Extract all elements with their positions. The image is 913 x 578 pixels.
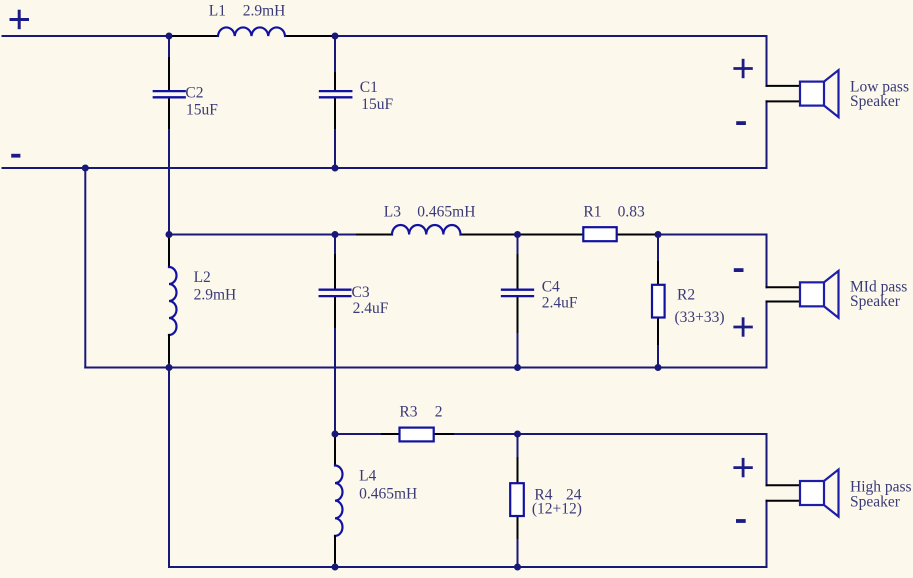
high pass speaker stubs — [767, 485, 801, 501]
node + high pass speaker positive — [735, 459, 752, 476]
junction high pass rail at R4 — [514, 431, 521, 438]
svg-text:R3: R3 — [399, 403, 417, 420]
svg-text:15uF: 15uF — [361, 96, 393, 113]
svg-text:R2: R2 — [677, 286, 695, 303]
mid pass speaker stubs — [767, 287, 801, 301]
junction top rail at C2 — [166, 33, 173, 40]
node - low pass speaker negative — [736, 121, 746, 125]
node - (input negative terminal) — [11, 154, 20, 158]
high pass speaker symbol — [800, 470, 839, 517]
wire high pass rail — [335, 433, 767, 435]
inductor L1 — [218, 27, 285, 36]
low pass speaker symbol — [800, 70, 839, 117]
inductor L2 — [169, 236, 177, 567]
junction mid rail at C4 — [514, 231, 521, 238]
svg-text:L3: L3 — [384, 204, 401, 221]
node + (input positive terminal) — [11, 11, 28, 28]
capacitor C1 — [320, 36, 351, 168]
svg-text:L2: L2 — [194, 269, 211, 286]
svg-text:C3: C3 — [352, 284, 370, 301]
wire negative rail — [3, 167, 767, 169]
capacitor C4 — [502, 235, 533, 368]
svg-text:2.9mH: 2.9mH — [194, 286, 237, 303]
junction bottom rail at R4 — [514, 564, 521, 571]
resistor R2 — [652, 235, 665, 368]
wire mid top rail — [169, 234, 767, 236]
svg-text:Speaker: Speaker — [850, 93, 901, 110]
svg-text:L4: L4 — [359, 468, 376, 485]
junction negative rail at C1 — [332, 165, 339, 172]
junction negative rail branch — [82, 165, 89, 172]
junction mid rail at L2 — [166, 231, 173, 238]
resistor R1 — [583, 227, 616, 241]
svg-text:C4: C4 — [542, 279, 560, 296]
svg-text:2.4uF: 2.4uF — [353, 300, 389, 317]
wire left vertical feed — [168, 168, 170, 236]
svg-text:Speaker: Speaker — [850, 293, 901, 310]
resistor R3 — [400, 428, 434, 442]
node + mid pass speaker positive — [735, 319, 752, 336]
svg-text:(12+12): (12+12) — [532, 500, 582, 517]
wire mid loop right edge — [766, 235, 768, 368]
wire top positive rail — [3, 35, 767, 37]
junction mid bottom rail at R2 — [655, 364, 662, 371]
node - mid pass speaker negative — [734, 268, 744, 272]
wire mid bottom rail — [85, 367, 766, 369]
svg-text:C1: C1 — [360, 79, 378, 96]
junction mid rail at R2 — [655, 231, 662, 238]
wire low-pass loop right edge — [766, 36, 768, 168]
svg-text:L1: L1 — [209, 3, 226, 20]
capacitor C2 — [154, 36, 185, 168]
junction mid bottom rail at C4 — [514, 364, 521, 371]
node - high pass speaker negative — [736, 519, 746, 523]
svg-text:(33+33): (33+33) — [675, 309, 725, 326]
junction high pass rail at L4 — [332, 431, 339, 438]
capacitor C3 — [320, 235, 351, 435]
svg-text:15uF: 15uF — [186, 102, 218, 119]
svg-text:Speaker: Speaker — [850, 493, 901, 510]
svg-text:2: 2 — [435, 403, 443, 420]
svg-text:0.465mH: 0.465mH — [417, 204, 475, 221]
resistor R4 — [510, 434, 524, 567]
svg-text:0.465mH: 0.465mH — [359, 485, 417, 502]
junction bottom rail at L4 — [332, 564, 339, 571]
mid pass speaker symbol — [800, 271, 839, 318]
inductor L3 — [392, 225, 460, 235]
svg-text:C2: C2 — [185, 85, 203, 102]
low pass speaker stubs — [767, 86, 801, 102]
wire negative branch vertical — [84, 168, 86, 368]
junction mid rail at C3 — [332, 231, 339, 238]
wire high pass loop right edge — [766, 434, 768, 567]
svg-text:2.9mH: 2.9mH — [243, 3, 286, 20]
svg-text:0.83: 0.83 — [618, 203, 645, 220]
svg-text:2.4uF: 2.4uF — [542, 295, 578, 312]
node + low pass speaker positive — [735, 60, 752, 77]
junction top rail at C1 — [332, 33, 339, 40]
wire bottom rail — [169, 566, 767, 568]
svg-text:R1: R1 — [583, 203, 601, 220]
junction mid bottom rail at L2 — [166, 364, 173, 371]
inductor L4 — [335, 435, 343, 567]
